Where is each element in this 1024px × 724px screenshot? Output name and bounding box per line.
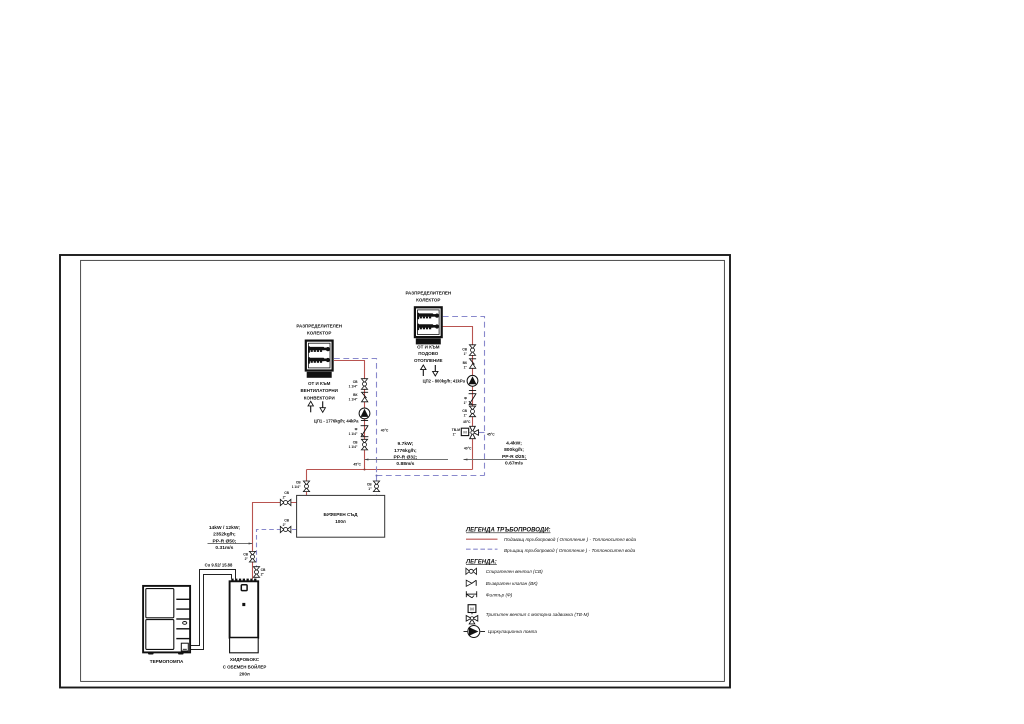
svg-text:ЦП1 - 1776kg/h; 44kPa: ЦП1 - 1776kg/h; 44kPa xyxy=(314,418,359,423)
svg-text:1": 1" xyxy=(453,433,457,437)
legend item three-way valve xyxy=(466,605,478,624)
svg-text:СВ: СВ xyxy=(261,568,266,572)
svg-text:РАЗПРЕДЕЛИТЕЛЕН: РАЗПРЕДЕЛИТЕЛЕН xyxy=(296,324,342,329)
pump CP2 xyxy=(467,375,478,386)
svg-text:ЦП2 - 800kg/h; 41kPa: ЦП2 - 800kg/h; 41kPa xyxy=(423,378,466,383)
collector K1 upper manifold xyxy=(308,346,330,352)
svg-text:PP-R Ø25;: PP-R Ø25; xyxy=(502,454,526,460)
svg-text:45°C: 45°C xyxy=(463,420,471,424)
svg-text:2": 2" xyxy=(283,523,287,527)
svg-text:45°C: 45°C xyxy=(487,432,495,436)
svg-text:1776kg/h;: 1776kg/h; xyxy=(394,448,417,454)
svg-text:РАЗПРЕДЕЛИТЕЛЕН: РАЗПРЕДЕЛИТЕЛЕН xyxy=(405,290,451,295)
svg-text:PP-R Ø50;: PP-R Ø50; xyxy=(212,538,236,544)
leader line 4.4kW xyxy=(464,459,528,461)
svg-text:200л: 200л xyxy=(239,672,250,677)
node: K1 junction on main xyxy=(364,469,366,471)
svg-text:14kW / 12kW;: 14kW / 12kW; xyxy=(209,525,241,531)
K2 flow arrow down xyxy=(433,365,438,376)
wire: red buffer left to hydrobox xyxy=(253,503,297,579)
filter F2 on K2 branch xyxy=(469,394,477,405)
svg-text:40°C: 40°C xyxy=(381,428,389,432)
svg-text:40°C: 40°C xyxy=(464,447,472,451)
legend item check valve xyxy=(466,580,476,586)
svg-text:1": 1" xyxy=(464,401,468,405)
wire: supply red main horizontal xyxy=(307,469,473,471)
leader line 9.7kW xyxy=(365,459,449,461)
K1 flow arrow down xyxy=(320,401,325,412)
svg-text:Филтър (Ф): Филтър (Ф) xyxy=(486,592,513,597)
wire: supply red left branch K1 xyxy=(334,361,365,470)
valve SV3 on K2 branch xyxy=(469,345,475,356)
K1 flow arrow up xyxy=(308,401,313,412)
svg-text:ЛЕГЕНДА ТРЪБОПРОВОДИ:: ЛЕГЕНДА ТРЪБОПРОВОДИ: xyxy=(465,528,551,534)
svg-text:Връщащ тръбопровод ( Отопление: Връщащ тръбопровод ( Отопление ) - Топло… xyxy=(504,548,636,553)
svg-text:ТВ-М: ТВ-М xyxy=(452,428,460,432)
valve SV7 buffer left supply xyxy=(280,499,291,505)
valve SV10 hydrobox return xyxy=(253,567,259,578)
svg-text:1 1/4": 1 1/4" xyxy=(349,384,358,388)
svg-text:1": 1" xyxy=(368,487,372,491)
svg-text:PP-R Ø32;: PP-R Ø32; xyxy=(393,454,417,460)
svg-text:ТЕРМОПОМПА: ТЕРМОПОМПА xyxy=(150,659,184,664)
svg-text:ОТОПЛЕНИЕ: ОТОПЛЕНИЕ xyxy=(414,358,443,363)
valve SV6 buffer top right xyxy=(373,481,379,492)
wire: return blue dashed left branch xyxy=(334,359,377,496)
svg-text:0.88m/s: 0.88m/s xyxy=(396,461,414,467)
three-way valve TVM1 with actuator xyxy=(461,426,478,438)
svg-text:СВ: СВ xyxy=(243,553,248,557)
wire: return blue dashed horizontal xyxy=(377,475,485,477)
svg-text:2352kg/h;: 2352kg/h; xyxy=(213,532,236,538)
svg-text:КОЛЕКТОР: КОЛЕКТОР xyxy=(307,331,331,336)
svg-text:СВ: СВ xyxy=(284,491,289,495)
svg-text:2": 2" xyxy=(283,496,287,500)
svg-text:СВ: СВ xyxy=(296,480,301,484)
collector K1 lower manifold xyxy=(308,357,330,363)
svg-text:2": 2" xyxy=(261,572,265,576)
svg-text:4.4kW;: 4.4kW; xyxy=(506,440,522,446)
collector K2 upper manifold xyxy=(417,313,439,319)
svg-text:ХИДРОБОКС: ХИДРОБОКС xyxy=(230,657,260,662)
valve SV8 buffer left return xyxy=(280,526,291,532)
wire: blue dashed buffer left to hydrobox xyxy=(257,530,297,579)
svg-text:1 1/4": 1 1/4" xyxy=(349,432,358,436)
valve SV4 on K2 branch xyxy=(469,406,475,417)
legend item pump xyxy=(464,626,486,638)
svg-text:ВЕНТИЛАТОРНИ: ВЕНТИЛАТОРНИ xyxy=(301,388,338,393)
svg-text:0.31m/s: 0.31m/s xyxy=(215,545,233,551)
svg-text:СВ: СВ xyxy=(462,409,467,413)
check valve VK1 on K1 branch xyxy=(361,392,368,402)
collector K2 box xyxy=(415,307,442,337)
valve SV2 on K1 branch xyxy=(361,439,367,450)
wire: supply red right branch K2 xyxy=(440,327,473,470)
legend return sample xyxy=(466,548,498,550)
collector K2 lower manifold xyxy=(417,324,439,330)
wire: three-way valve stub to return xyxy=(478,432,485,434)
svg-text:Cu 9.52/ 15.88: Cu 9.52/ 15.88 xyxy=(205,563,233,568)
svg-text:ЛЕГЕНДА:: ЛЕГЕНДА: xyxy=(465,559,497,565)
svg-text:1 1/4": 1 1/4" xyxy=(349,445,358,449)
filter F1 on K1 branch xyxy=(361,426,369,437)
legend item filter xyxy=(466,591,476,598)
svg-text:M: M xyxy=(463,430,466,435)
svg-text:БУФЕРЕН СЪД: БУФЕРЕН СЪД xyxy=(323,512,358,517)
svg-text:ОТ И КЪМ: ОТ И КЪМ xyxy=(417,345,440,350)
svg-text:1 1/4": 1 1/4" xyxy=(292,485,301,489)
svg-text:СВ: СВ xyxy=(353,441,358,445)
svg-text:Трипътен вентил с моторна задв: Трипътен вентил с моторна задвижка (ТВ-М… xyxy=(486,612,590,617)
svg-text:1": 1" xyxy=(464,366,468,370)
legend supply sample xyxy=(466,538,498,540)
svg-text:СВ: СВ xyxy=(353,380,358,384)
collector K1 box xyxy=(306,341,333,371)
svg-text:Ф: Ф xyxy=(464,397,467,401)
valve SV1 on K1 branch xyxy=(361,379,367,390)
valve SV9 hydrobox supply xyxy=(249,551,255,562)
svg-text:100л: 100л xyxy=(335,519,346,524)
svg-text:M: M xyxy=(470,607,474,612)
wire: supply red drop to buffer top left xyxy=(306,470,308,496)
svg-text:0.67m/s: 0.67m/s xyxy=(505,461,523,467)
node: return junction on dashed main xyxy=(376,475,378,477)
svg-text:КОНВЕКТОРИ: КОНВЕКТОРИ xyxy=(304,395,335,400)
check valve VK2 on K2 branch xyxy=(469,359,476,369)
pump CP1 xyxy=(359,408,370,419)
svg-text:Циркулационна помпа: Циркулационна помпа xyxy=(488,629,537,634)
svg-text:1": 1" xyxy=(464,413,468,417)
svg-text:СВ: СВ xyxy=(284,518,289,522)
heat pump unit xyxy=(143,586,190,655)
refrigerant pipe pair Cu xyxy=(188,570,236,646)
leader line 14kW xyxy=(208,543,253,545)
svg-text:СВ: СВ xyxy=(462,347,467,351)
svg-text:2": 2" xyxy=(245,557,249,561)
svg-text:800kg/h;: 800kg/h; xyxy=(504,447,524,453)
legend item gate valve xyxy=(466,568,477,574)
svg-text:45°C: 45°C xyxy=(353,462,361,466)
svg-text:ОТ И КЪМ: ОТ И КЪМ xyxy=(308,381,331,386)
svg-text:ПОДОВО: ПОДОВО xyxy=(418,351,439,356)
buffer tank xyxy=(297,495,385,537)
svg-text:Спирателен вентил (СВ): Спирателен вентил (СВ) xyxy=(486,569,543,574)
wire: return blue dashed right branch xyxy=(443,317,485,476)
svg-text:Възвратен клапан (ВК): Възвратен клапан (ВК) xyxy=(486,581,538,586)
K2 flow arrow up xyxy=(421,365,426,376)
drawing frame inner border xyxy=(81,260,725,681)
svg-text:С ОБЕМЕН БОЙЛЕР: С ОБЕМЕН БОЙЛЕР xyxy=(223,664,267,669)
svg-text:1 1/4": 1 1/4" xyxy=(349,398,358,402)
svg-text:Ф: Ф xyxy=(355,427,358,431)
svg-text:Подаващ тръбопровод ( Отоплени: Подаващ тръбопровод ( Отопление ) - Топл… xyxy=(504,537,636,542)
svg-text:СВ: СВ xyxy=(367,482,372,486)
svg-text:9.7kW;: 9.7kW; xyxy=(398,441,414,447)
svg-text:1": 1" xyxy=(464,352,468,356)
hydrobox unit xyxy=(230,579,259,653)
collector K2 pedestal xyxy=(416,338,441,344)
svg-text:КОЛЕКТОР: КОЛЕКТОР xyxy=(416,298,440,303)
drawing frame outer border xyxy=(60,255,730,688)
collector K1 pedestal xyxy=(307,372,332,378)
valve SV5 buffer top left xyxy=(303,481,309,492)
